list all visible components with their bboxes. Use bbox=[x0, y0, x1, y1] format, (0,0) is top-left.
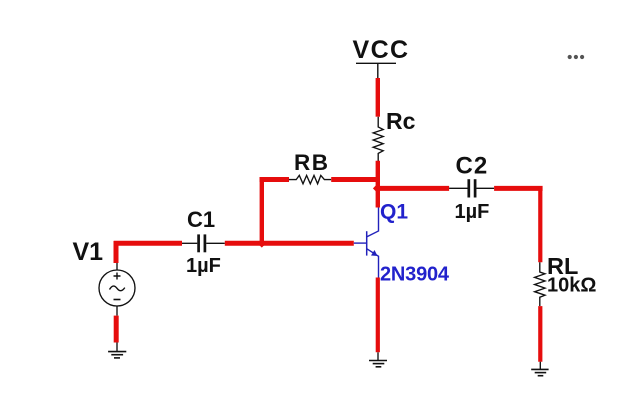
ground emitter bbox=[369, 352, 387, 367]
capacitor C1 bbox=[182, 234, 225, 252]
svg-text:1µF: 1µF bbox=[186, 255, 221, 277]
wire V1 corner vertical bbox=[114, 241, 119, 263]
source V1 sine bbox=[110, 286, 125, 291]
power symbol VCC bar bbox=[356, 62, 396, 64]
wire emitter to ground bbox=[376, 278, 380, 353]
wire RL corner vertical bbox=[538, 186, 542, 262]
ground RL bbox=[531, 362, 548, 376]
svg-text:10kΩ: 10kΩ bbox=[547, 275, 596, 297]
wire C2 to RL corner bbox=[494, 186, 542, 191]
capacitor C2 bbox=[449, 179, 494, 197]
svg-text:RB: RB bbox=[294, 150, 330, 175]
ellipsis dots bbox=[568, 55, 585, 59]
svg-text:2N3904: 2N3904 bbox=[380, 264, 450, 286]
wire RB to collector node bbox=[331, 177, 380, 182]
svg-text:C1: C1 bbox=[187, 207, 215, 232]
wire RL to ground bbox=[538, 306, 542, 362]
svg-text:VCC: VCC bbox=[353, 36, 410, 64]
svg-text:Rc: Rc bbox=[386, 108, 416, 134]
wire V1 to ground bbox=[114, 316, 119, 343]
wire C1 to base bbox=[225, 241, 354, 246]
svg-text:Q1: Q1 bbox=[380, 201, 408, 224]
transistor Q1 emitter arrow bbox=[371, 250, 378, 256]
wire collector node to C2 bbox=[378, 186, 449, 191]
wire RB corner vertical bbox=[260, 177, 264, 245]
transistor Q1 bbox=[354, 208, 379, 279]
junction collector node bbox=[373, 184, 382, 193]
power symbol VCC pin bbox=[377, 63, 379, 79]
wire VCC to Rc bbox=[376, 78, 380, 117]
source V1 plus sign bbox=[114, 273, 121, 280]
source V1 minus sign bbox=[114, 299, 121, 301]
junction base node bbox=[258, 239, 267, 248]
resistor RL bbox=[535, 262, 545, 306]
source V1 bbox=[99, 263, 135, 316]
resistor Rc bbox=[373, 117, 383, 162]
ground V1 bbox=[108, 343, 126, 358]
svg-text:V1: V1 bbox=[73, 238, 104, 266]
wire V1 to C1 bbox=[114, 241, 182, 246]
resistor RB bbox=[289, 175, 331, 183]
svg-text:1µF: 1µF bbox=[455, 201, 490, 223]
wire RB left horizontal bbox=[260, 177, 290, 182]
wire Rc to collector node bbox=[376, 161, 380, 208]
svg-text:C2: C2 bbox=[456, 153, 489, 180]
